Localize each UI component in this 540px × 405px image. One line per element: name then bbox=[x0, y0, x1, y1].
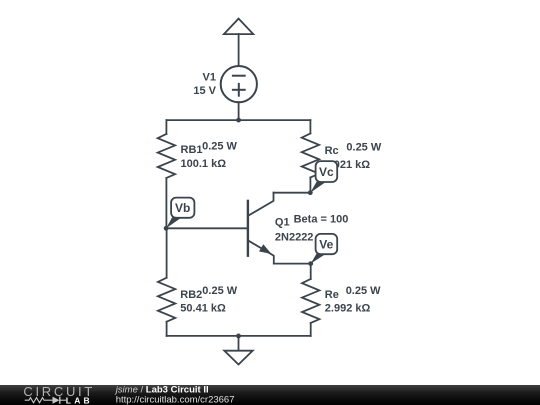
node Vb: dot, pointer, bubble bbox=[164, 198, 195, 231]
wire bottom rail to ground bbox=[238, 336, 240, 351]
svg-text:0.25 W: 0.25 W bbox=[202, 285, 237, 297]
transistor Q1 2N2222 bbox=[248, 193, 274, 264]
svg-text:Re: Re bbox=[325, 289, 339, 301]
wire base bbox=[166, 227, 247, 229]
node junction dot ground bbox=[236, 334, 241, 339]
svg-text:50.41 kΩ: 50.41 kΩ bbox=[180, 302, 226, 314]
ground bbox=[224, 351, 252, 365]
footer title text bbox=[114, 384, 235, 405]
power supply arrow (top) bbox=[224, 19, 253, 34]
wire emitter node to Re bbox=[310, 264, 312, 279]
resistor RB2 bbox=[158, 278, 175, 322]
svg-text:0.25 W: 0.25 W bbox=[346, 142, 381, 154]
svg-text:0.25 W: 0.25 W bbox=[202, 140, 237, 152]
resistor Re bbox=[302, 279, 319, 323]
node Ve: dot, pointer, bubble bbox=[308, 234, 337, 266]
wire top rail to RB1 bbox=[165, 120, 167, 134]
CircuitLab logo wordmark bbox=[23, 384, 95, 405]
wire V1 bottom to top rail bbox=[238, 102, 240, 120]
svg-text:RB2: RB2 bbox=[180, 289, 202, 301]
svg-text:100.1 kΩ: 100.1 kΩ bbox=[181, 158, 227, 170]
svg-text:Ve: Ve bbox=[319, 238, 333, 252]
wire bottom rail bbox=[167, 335, 311, 337]
wire arrow to V1 top bbox=[238, 34, 240, 66]
svg-text:2.992 kΩ: 2.992 kΩ bbox=[325, 303, 371, 315]
wire Rc to collector node bbox=[309, 178, 311, 193]
svg-text:LAB: LAB bbox=[66, 395, 93, 405]
wire emitter horizontal bbox=[274, 263, 311, 265]
voltage source V1 bbox=[221, 66, 257, 102]
footer attribution bar bbox=[0, 385, 540, 405]
svg-text:0.25 W: 0.25 W bbox=[346, 285, 381, 297]
resistor RB1 bbox=[158, 134, 175, 178]
svg-text:Vc: Vc bbox=[319, 165, 334, 179]
node junction dot top rail bbox=[236, 118, 241, 123]
svg-text:RB1: RB1 bbox=[181, 144, 203, 156]
node Vc: dot, pointer, bubble bbox=[308, 161, 337, 195]
wire RB1 to node Vb bbox=[165, 178, 167, 228]
svg-text:Q1: Q1 bbox=[275, 216, 290, 228]
svg-text:V1: V1 bbox=[203, 72, 216, 84]
wire top rail to Rc bbox=[309, 120, 311, 133]
wire RB2 to bottom rail bbox=[166, 322, 168, 336]
svg-text:Beta = 100: Beta = 100 bbox=[294, 214, 349, 226]
svg-text:15 V: 15 V bbox=[193, 85, 216, 97]
svg-text:http://circuitlab.com/cr23667: http://circuitlab.com/cr23667 bbox=[116, 394, 235, 405]
svg-text:2N2222: 2N2222 bbox=[275, 231, 314, 243]
wire node Vb to RB2 bbox=[166, 228, 168, 277]
wire Re to bottom rail bbox=[310, 323, 312, 336]
resistor Rc bbox=[302, 134, 319, 178]
wire collector horizontal bbox=[274, 192, 311, 194]
svg-text:Rc: Rc bbox=[325, 145, 339, 157]
wire top rail bbox=[166, 119, 310, 121]
svg-text:Vb: Vb bbox=[175, 201, 190, 215]
